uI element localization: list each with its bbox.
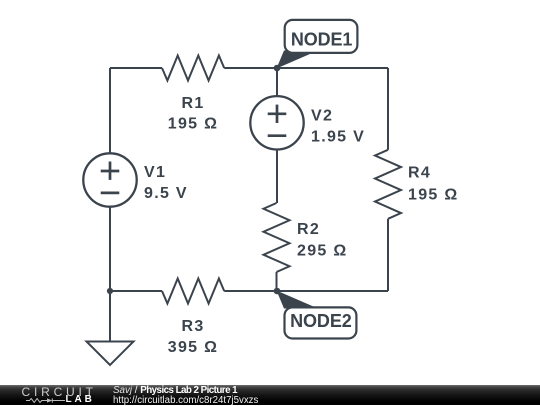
- svg-text:195 Ω: 195 Ω: [168, 116, 218, 133]
- svg-text:V1: V1: [144, 164, 166, 181]
- svg-text:295 Ω: 295 Ω: [297, 242, 347, 259]
- svg-text:195 Ω: 195 Ω: [408, 186, 458, 203]
- svg-text:V2: V2: [311, 108, 333, 125]
- svg-text:395 Ω: 395 Ω: [168, 339, 218, 356]
- svg-text:1.95 V: 1.95 V: [311, 129, 365, 146]
- svg-text:R2: R2: [297, 221, 320, 238]
- svg-text:NODE1: NODE1: [291, 30, 353, 50]
- svg-text:R4: R4: [408, 165, 431, 182]
- svg-text:NODE2: NODE2: [290, 311, 352, 331]
- svg-text:R1: R1: [181, 95, 204, 112]
- svg-text:9.5 V: 9.5 V: [144, 185, 188, 202]
- svg-text:R3: R3: [181, 318, 204, 335]
